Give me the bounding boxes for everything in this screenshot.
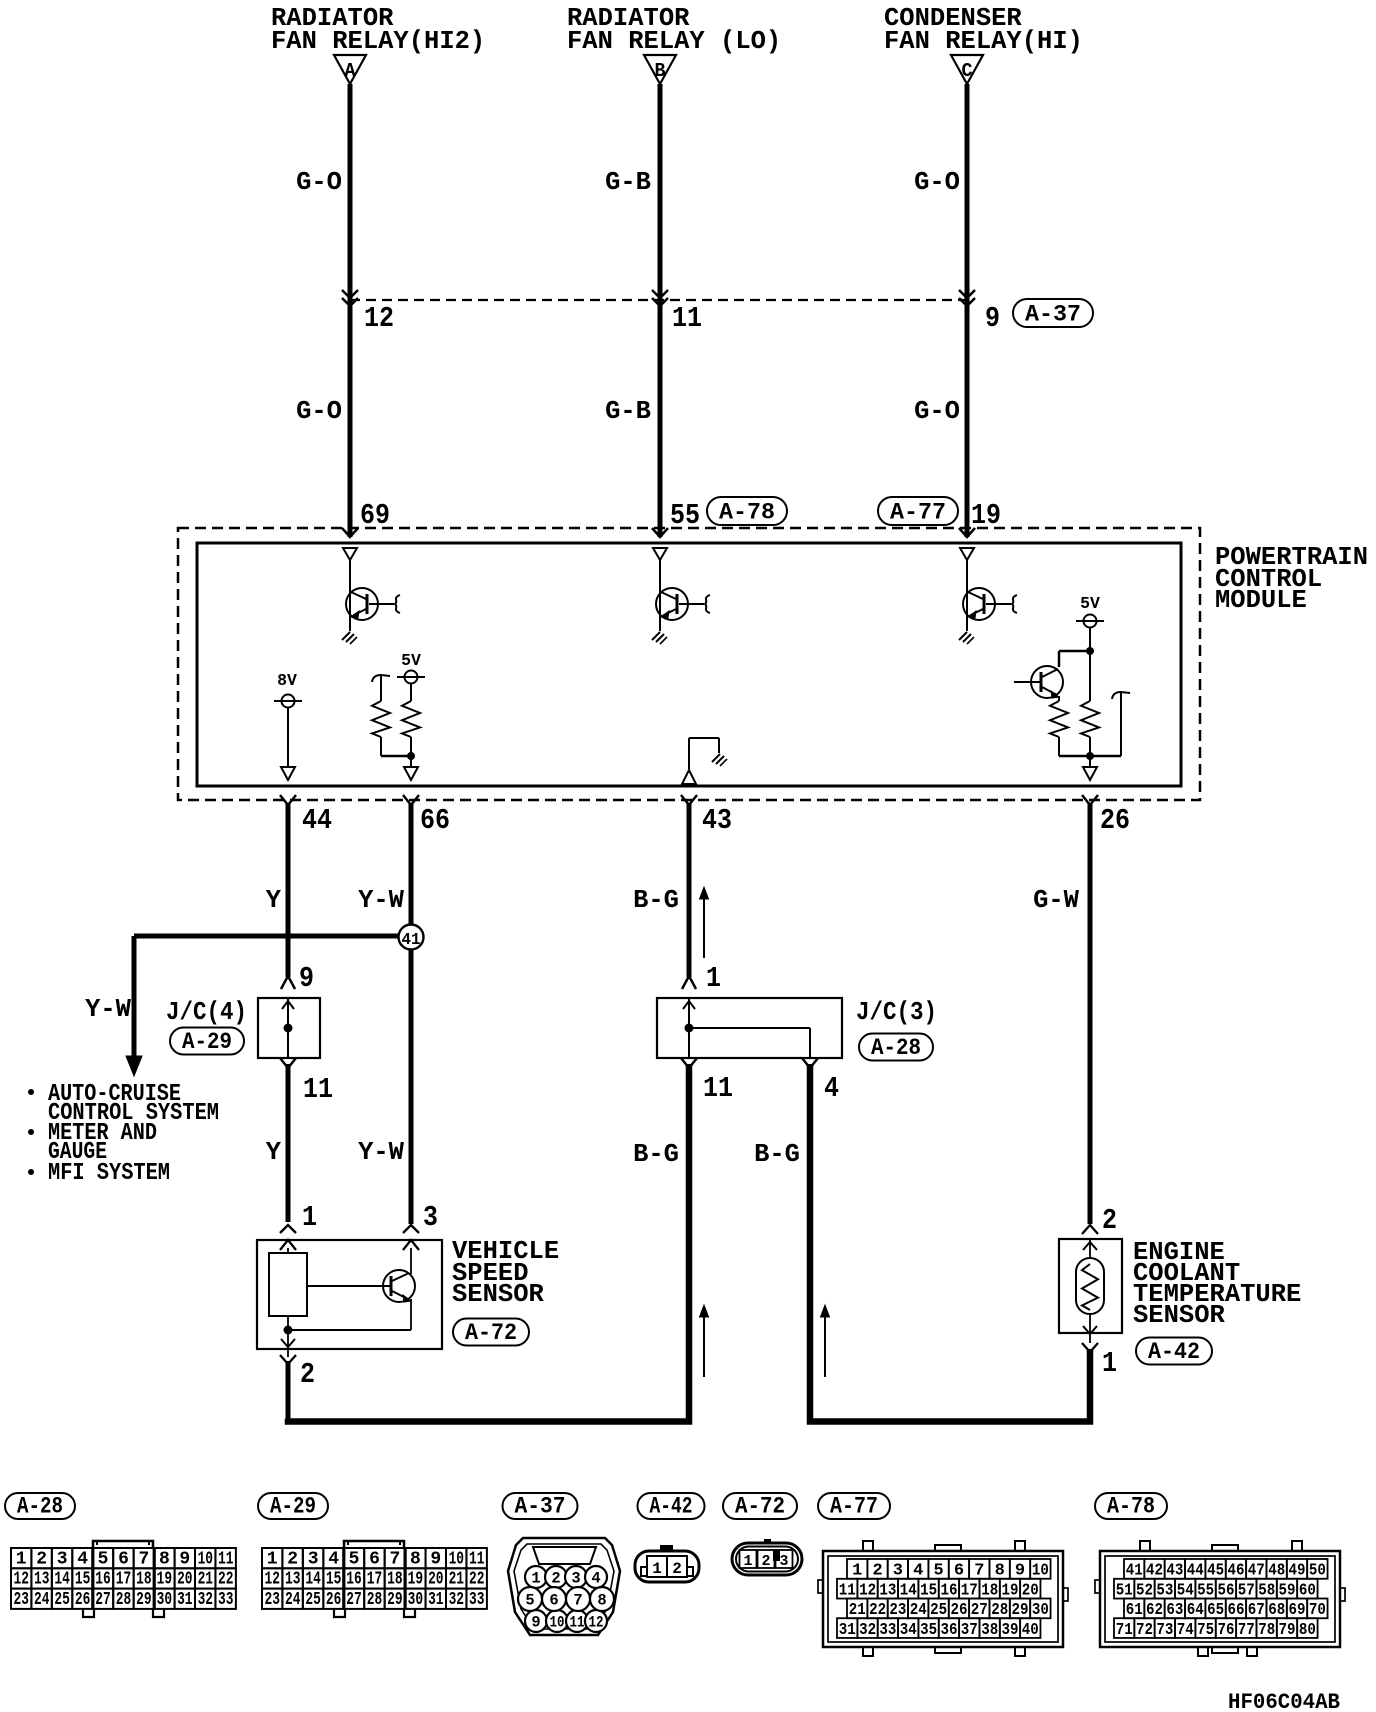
svg-text:A-28: A-28: [17, 1494, 63, 1520]
svg-text:9: 9: [299, 962, 314, 995]
svg-text:7: 7: [974, 1562, 984, 1581]
svg-text:33: 33: [469, 1590, 484, 1610]
svg-text:22: 22: [469, 1570, 484, 1590]
svg-text:8: 8: [597, 1592, 606, 1610]
svg-text:43: 43: [702, 804, 732, 837]
svg-text:10: 10: [1032, 1562, 1049, 1581]
svg-text:17: 17: [961, 1581, 978, 1600]
svg-text:15: 15: [326, 1570, 341, 1590]
svg-text:9: 9: [179, 1549, 190, 1569]
svg-text:5V: 5V: [401, 651, 421, 670]
svg-text:65: 65: [1207, 1601, 1224, 1620]
svg-text:16: 16: [346, 1570, 361, 1590]
svg-text:1: 1: [16, 1549, 27, 1569]
svg-text:79: 79: [1279, 1621, 1296, 1640]
svg-text:G-O: G-O: [296, 168, 342, 197]
svg-text:12: 12: [859, 1581, 876, 1600]
svg-text:30: 30: [1032, 1601, 1049, 1620]
svg-text:72: 72: [1136, 1621, 1153, 1640]
svg-text:40: 40: [1022, 1621, 1039, 1640]
svg-text:37: 37: [961, 1621, 978, 1640]
svg-text:21: 21: [449, 1570, 465, 1590]
svg-text:28: 28: [367, 1590, 382, 1610]
svg-text:67: 67: [1248, 1601, 1265, 1620]
svg-text:9: 9: [985, 302, 1000, 335]
svg-text:26: 26: [1100, 804, 1130, 837]
svg-text:13: 13: [34, 1570, 49, 1590]
svg-text:48: 48: [1268, 1562, 1285, 1581]
svg-text:22: 22: [218, 1570, 233, 1590]
svg-text:3: 3: [571, 1570, 580, 1588]
svg-text:9: 9: [531, 1614, 540, 1632]
svg-text:15: 15: [75, 1570, 90, 1590]
svg-text:6: 6: [954, 1562, 964, 1581]
svg-text:2: 2: [1102, 1204, 1117, 1237]
svg-text:G-B: G-B: [605, 397, 651, 426]
svg-text:21: 21: [849, 1601, 866, 1620]
svg-text:2: 2: [300, 1358, 315, 1391]
svg-text:76: 76: [1218, 1621, 1235, 1640]
svg-text:Y-W: Y-W: [358, 886, 405, 915]
svg-text:J/C(4): J/C(4): [166, 997, 247, 1027]
svg-text:20: 20: [1022, 1581, 1039, 1600]
svg-text:G-B: G-B: [605, 168, 651, 197]
svg-text:54: 54: [1177, 1581, 1194, 1600]
svg-text:57: 57: [1238, 1581, 1255, 1600]
svg-text:3: 3: [423, 1201, 438, 1234]
svg-text:1: 1: [706, 962, 721, 995]
svg-text:23: 23: [13, 1590, 28, 1610]
svg-text:17: 17: [116, 1570, 131, 1590]
svg-text:B-G: B-G: [754, 1140, 800, 1169]
svg-text:45: 45: [1207, 1562, 1224, 1581]
svg-text:11: 11: [839, 1581, 856, 1600]
svg-text:23: 23: [889, 1601, 906, 1620]
svg-text:9: 9: [430, 1549, 441, 1569]
svg-text:32: 32: [198, 1590, 213, 1610]
svg-text:14: 14: [54, 1570, 70, 1590]
svg-text:6: 6: [118, 1549, 129, 1569]
svg-text:20: 20: [428, 1570, 443, 1590]
svg-text:13: 13: [879, 1581, 896, 1600]
svg-text:50: 50: [1309, 1562, 1326, 1581]
svg-text:27: 27: [346, 1590, 361, 1610]
svg-text:SENSOR: SENSOR: [1133, 1301, 1226, 1330]
svg-text:8: 8: [995, 1562, 1005, 1581]
svg-text:12: 12: [264, 1570, 279, 1590]
svg-text:6: 6: [549, 1592, 558, 1610]
svg-text:G-W: G-W: [1033, 886, 1080, 915]
svg-text:6: 6: [369, 1549, 380, 1569]
svg-text:52: 52: [1136, 1581, 1153, 1600]
svg-text:3: 3: [308, 1549, 319, 1569]
svg-text:FAN RELAY(HI): FAN RELAY(HI): [884, 27, 1083, 56]
svg-text:30: 30: [157, 1590, 172, 1610]
svg-text:59: 59: [1279, 1581, 1296, 1600]
svg-text:39: 39: [1002, 1621, 1019, 1640]
svg-text:44: 44: [1187, 1562, 1204, 1581]
svg-text:2: 2: [551, 1570, 560, 1588]
svg-text:1: 1: [652, 1560, 662, 1578]
svg-text:A-42: A-42: [650, 1494, 693, 1520]
svg-text:3: 3: [893, 1562, 903, 1581]
svg-text:25: 25: [305, 1590, 320, 1610]
svg-text:A-77: A-77: [890, 500, 946, 526]
svg-text:2: 2: [287, 1549, 298, 1569]
svg-text:10: 10: [198, 1549, 213, 1569]
svg-text:31: 31: [839, 1621, 856, 1640]
svg-text:14: 14: [305, 1570, 321, 1590]
svg-text:24: 24: [910, 1601, 927, 1620]
svg-text:7: 7: [389, 1549, 400, 1569]
svg-text:12: 12: [589, 1614, 604, 1632]
svg-text:Y: Y: [266, 1138, 282, 1167]
svg-text:J/C(3): J/C(3): [856, 997, 937, 1027]
svg-text:1: 1: [531, 1570, 540, 1588]
svg-text:75: 75: [1197, 1621, 1214, 1640]
svg-text:Y-W: Y-W: [85, 995, 132, 1024]
svg-text:G-O: G-O: [914, 397, 960, 426]
svg-text:27: 27: [95, 1590, 110, 1610]
svg-text:25: 25: [54, 1590, 69, 1610]
svg-text:A: A: [345, 60, 357, 82]
svg-text:46: 46: [1228, 1562, 1245, 1581]
svg-text:A-77: A-77: [830, 1494, 878, 1520]
svg-text:31: 31: [177, 1590, 193, 1610]
svg-text:26: 26: [951, 1601, 968, 1620]
svg-text:8: 8: [159, 1549, 170, 1569]
svg-text:18: 18: [981, 1581, 998, 1600]
svg-text:Y-W: Y-W: [358, 1138, 405, 1167]
svg-text:33: 33: [879, 1621, 896, 1640]
svg-text:A-37: A-37: [515, 1494, 566, 1520]
svg-text:7: 7: [138, 1549, 149, 1569]
svg-text:34: 34: [900, 1621, 917, 1640]
svg-text:11: 11: [303, 1073, 333, 1106]
svg-text:74: 74: [1177, 1621, 1194, 1640]
svg-text:18: 18: [136, 1570, 151, 1590]
svg-text:11: 11: [570, 1614, 585, 1632]
svg-text:A-72: A-72: [465, 1320, 517, 1346]
svg-text:MODULE: MODULE: [1215, 586, 1307, 615]
svg-text:71: 71: [1116, 1621, 1133, 1640]
svg-text:26: 26: [75, 1590, 90, 1610]
svg-text:25: 25: [930, 1601, 947, 1620]
svg-text:SENSOR: SENSOR: [452, 1280, 545, 1309]
svg-text:MFI SYSTEM: MFI SYSTEM: [48, 1160, 170, 1187]
svg-text:55: 55: [1197, 1581, 1214, 1600]
svg-text:27: 27: [971, 1601, 988, 1620]
svg-text:64: 64: [1187, 1601, 1204, 1620]
svg-text:30: 30: [408, 1590, 423, 1610]
svg-text:47: 47: [1248, 1562, 1265, 1581]
svg-text:A-29: A-29: [270, 1494, 316, 1520]
svg-text:1: 1: [743, 1553, 752, 1570]
svg-text:3: 3: [57, 1549, 68, 1569]
svg-text:10: 10: [449, 1549, 464, 1569]
svg-text:4: 4: [77, 1549, 88, 1569]
svg-text:18: 18: [387, 1570, 402, 1590]
svg-text:60: 60: [1299, 1581, 1316, 1600]
svg-text:1: 1: [302, 1201, 317, 1234]
svg-text:73: 73: [1156, 1621, 1173, 1640]
svg-text:43: 43: [1166, 1562, 1183, 1581]
svg-text:21: 21: [198, 1570, 214, 1590]
svg-text:23: 23: [264, 1590, 279, 1610]
svg-text:Y: Y: [266, 886, 282, 915]
svg-text:29: 29: [387, 1590, 402, 1610]
svg-text:A-72: A-72: [735, 1494, 785, 1520]
svg-text:29: 29: [136, 1590, 151, 1610]
svg-text:32: 32: [449, 1590, 464, 1610]
svg-text:5: 5: [349, 1549, 360, 1569]
svg-text:51: 51: [1116, 1581, 1133, 1600]
svg-text:56: 56: [1218, 1581, 1235, 1600]
svg-text:A-29: A-29: [182, 1029, 232, 1055]
svg-text:19: 19: [408, 1570, 423, 1590]
svg-text:8V: 8V: [277, 671, 297, 690]
svg-text:4: 4: [591, 1570, 600, 1588]
svg-text:24: 24: [34, 1590, 50, 1610]
svg-text:42: 42: [1146, 1562, 1163, 1581]
svg-text:19: 19: [1002, 1581, 1019, 1600]
svg-text:44: 44: [302, 804, 332, 837]
svg-text:4: 4: [328, 1549, 339, 1569]
svg-text:36: 36: [941, 1621, 958, 1640]
svg-text:63: 63: [1166, 1601, 1183, 1620]
svg-text:1: 1: [1102, 1347, 1117, 1380]
svg-text:2: 2: [36, 1549, 47, 1569]
svg-text:70: 70: [1309, 1601, 1326, 1620]
svg-text:33: 33: [218, 1590, 233, 1610]
svg-text:28: 28: [116, 1590, 131, 1610]
svg-text:58: 58: [1258, 1581, 1275, 1600]
svg-text:20: 20: [177, 1570, 192, 1590]
svg-text:41: 41: [402, 931, 421, 950]
svg-text:10: 10: [550, 1614, 565, 1632]
svg-text:B-G: B-G: [633, 886, 679, 915]
svg-text:5: 5: [98, 1549, 109, 1569]
svg-text:66: 66: [420, 804, 450, 837]
svg-text:26: 26: [326, 1590, 341, 1610]
svg-text:C: C: [962, 60, 973, 82]
svg-text:FAN RELAY (LO): FAN RELAY (LO): [567, 27, 781, 56]
svg-text:A-78: A-78: [719, 500, 775, 526]
svg-text:69: 69: [1289, 1601, 1306, 1620]
svg-text:24: 24: [285, 1590, 301, 1610]
svg-text:3: 3: [779, 1553, 788, 1570]
svg-text:17: 17: [367, 1570, 382, 1590]
svg-text:5: 5: [933, 1562, 943, 1581]
svg-text:35: 35: [920, 1621, 937, 1640]
svg-text:A-28: A-28: [871, 1035, 921, 1061]
svg-text:2: 2: [872, 1562, 882, 1581]
svg-text:4: 4: [913, 1562, 923, 1581]
svg-text:2: 2: [672, 1560, 682, 1578]
svg-text:61: 61: [1126, 1601, 1143, 1620]
svg-text:1: 1: [852, 1562, 862, 1581]
svg-text:A-78: A-78: [1107, 1494, 1155, 1520]
svg-text:32: 32: [859, 1621, 876, 1640]
svg-text:5V: 5V: [1080, 594, 1100, 613]
svg-text:2: 2: [761, 1553, 770, 1570]
svg-text:7: 7: [573, 1592, 582, 1610]
svg-text:14: 14: [900, 1581, 917, 1600]
svg-text:19: 19: [157, 1570, 172, 1590]
svg-text:12: 12: [364, 302, 394, 335]
svg-text:A-42: A-42: [1148, 1339, 1200, 1365]
svg-text:5: 5: [525, 1592, 534, 1610]
svg-text:B: B: [655, 60, 666, 82]
svg-text:62: 62: [1146, 1601, 1163, 1620]
svg-text:77: 77: [1238, 1621, 1255, 1640]
svg-text:1: 1: [267, 1549, 278, 1569]
svg-text:49: 49: [1289, 1562, 1306, 1581]
svg-text:53: 53: [1156, 1581, 1173, 1600]
svg-text:HF06C04AB: HF06C04AB: [1228, 1690, 1340, 1712]
svg-text:13: 13: [285, 1570, 300, 1590]
svg-text:38: 38: [981, 1621, 998, 1640]
svg-text:29: 29: [1012, 1601, 1029, 1620]
svg-text:11: 11: [218, 1549, 234, 1569]
svg-text:8: 8: [410, 1549, 421, 1569]
svg-text:68: 68: [1268, 1601, 1285, 1620]
svg-text:66: 66: [1228, 1601, 1245, 1620]
svg-text:G-O: G-O: [914, 168, 960, 197]
svg-text:15: 15: [920, 1581, 937, 1600]
svg-text:80: 80: [1299, 1621, 1316, 1640]
svg-text:A-37: A-37: [1025, 302, 1081, 328]
svg-text:28: 28: [991, 1601, 1008, 1620]
svg-text:11: 11: [469, 1549, 485, 1569]
svg-text:16: 16: [95, 1570, 110, 1590]
svg-text:B-G: B-G: [633, 1140, 679, 1169]
svg-text:4: 4: [824, 1072, 839, 1105]
svg-text:16: 16: [941, 1581, 958, 1600]
svg-text:41: 41: [1126, 1562, 1143, 1581]
svg-text:78: 78: [1258, 1621, 1275, 1640]
svg-text:22: 22: [869, 1601, 886, 1620]
svg-text:G-O: G-O: [296, 397, 342, 426]
svg-text:31: 31: [428, 1590, 444, 1610]
svg-text:FAN RELAY(HI2): FAN RELAY(HI2): [271, 27, 485, 56]
svg-text:12: 12: [13, 1570, 28, 1590]
svg-text:11: 11: [703, 1072, 733, 1105]
svg-text:9: 9: [1015, 1562, 1025, 1581]
svg-text:11: 11: [672, 302, 702, 335]
